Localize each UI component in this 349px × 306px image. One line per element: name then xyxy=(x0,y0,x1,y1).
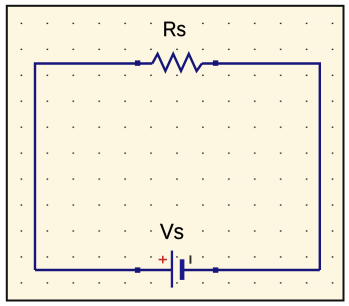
resistor Rs xyxy=(152,54,202,71)
pin square (battery right) xyxy=(213,267,218,272)
wire: bottom-left segment to battery positive plate xyxy=(35,269,172,271)
plus mark xyxy=(159,256,167,264)
positive plate (long) xyxy=(171,251,173,288)
wire: top-right segment + right side xyxy=(202,64,320,271)
wire: top-left segment and left side xyxy=(35,64,152,271)
minus tick xyxy=(190,255,192,263)
voltage source Vs (battery) xyxy=(171,251,185,288)
wire: bottom-right segment from battery negative plate xyxy=(183,269,320,271)
label Rs xyxy=(161,17,188,40)
pin square (resistor left) xyxy=(135,60,140,65)
pin square (battery left) xyxy=(135,267,140,272)
pin square (resistor right) xyxy=(213,60,218,65)
negative plate (short thick) xyxy=(180,259,185,280)
label Vs xyxy=(157,220,186,243)
